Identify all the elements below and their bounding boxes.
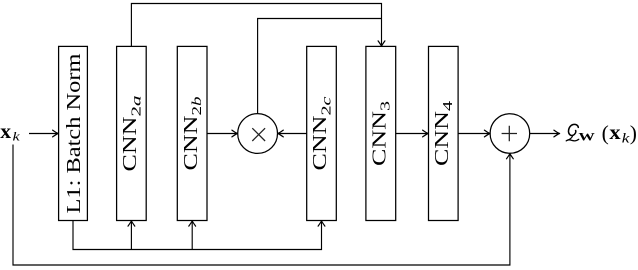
svg-text:(: (: [602, 121, 609, 145]
svg-text:L1: Batch Norm: L1: Batch Norm: [63, 53, 85, 213]
svg-text:k: k: [13, 129, 21, 143]
svg-text:W: W: [578, 131, 596, 143]
svg-text:): ): [630, 121, 637, 145]
svg-text:x: x: [0, 121, 11, 143]
svg-text:x: x: [609, 122, 620, 144]
